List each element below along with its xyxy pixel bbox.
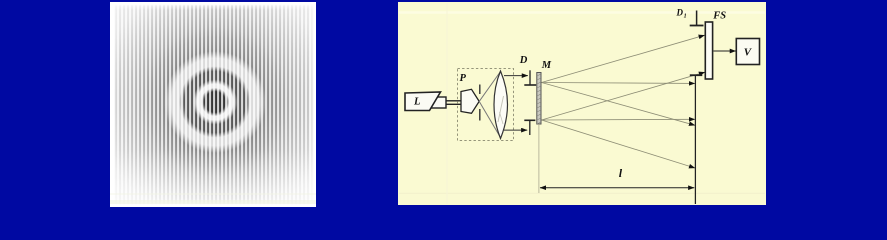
pinhole line (479, 85, 481, 95)
laser L body (405, 92, 441, 111)
hologram plate M (537, 73, 541, 125)
fringe lines (113, 5, 313, 204)
photodetector FS (705, 22, 712, 79)
svg-text:M: M (541, 60, 552, 71)
svg-text:FS: FS (712, 10, 726, 21)
svg-text:D: D (676, 7, 684, 17)
dimension line l (540, 187, 694, 189)
diaphragm D bottom stop (524, 119, 535, 121)
wire FS to voltmeter (714, 50, 736, 52)
aperture D1 top stop (696, 11, 698, 26)
observation plane vertical line (694, 75, 696, 204)
dashed box P (458, 69, 514, 141)
svg-text:1: 1 (684, 13, 687, 19)
lens (494, 71, 508, 139)
top bar of observation plane (690, 74, 703, 76)
beam double line (446, 100, 462, 102)
laser snout rectangle (431, 97, 447, 108)
voltmeter V box (736, 39, 759, 65)
diffracted rays from M (542, 35, 705, 82)
svg-text:L: L (413, 97, 420, 108)
svg-text:P: P (460, 73, 467, 84)
objective cone (461, 89, 479, 113)
left panel: interference fringe photograph (110, 2, 316, 207)
faint scan artifact grid lines on yellow panel (399, 3, 765, 204)
collimated ray bottom (504, 129, 527, 131)
diaphragm D top stop (529, 70, 531, 85)
svg-text:l: l (619, 166, 623, 180)
diverging rays to lens (479, 72, 500, 102)
svg-text:D: D (519, 55, 528, 66)
right panel: optical schematic (398, 2, 766, 205)
collimated ray top (504, 75, 528, 77)
lens hatch (498, 96, 504, 122)
extension line below M (538, 124, 540, 193)
